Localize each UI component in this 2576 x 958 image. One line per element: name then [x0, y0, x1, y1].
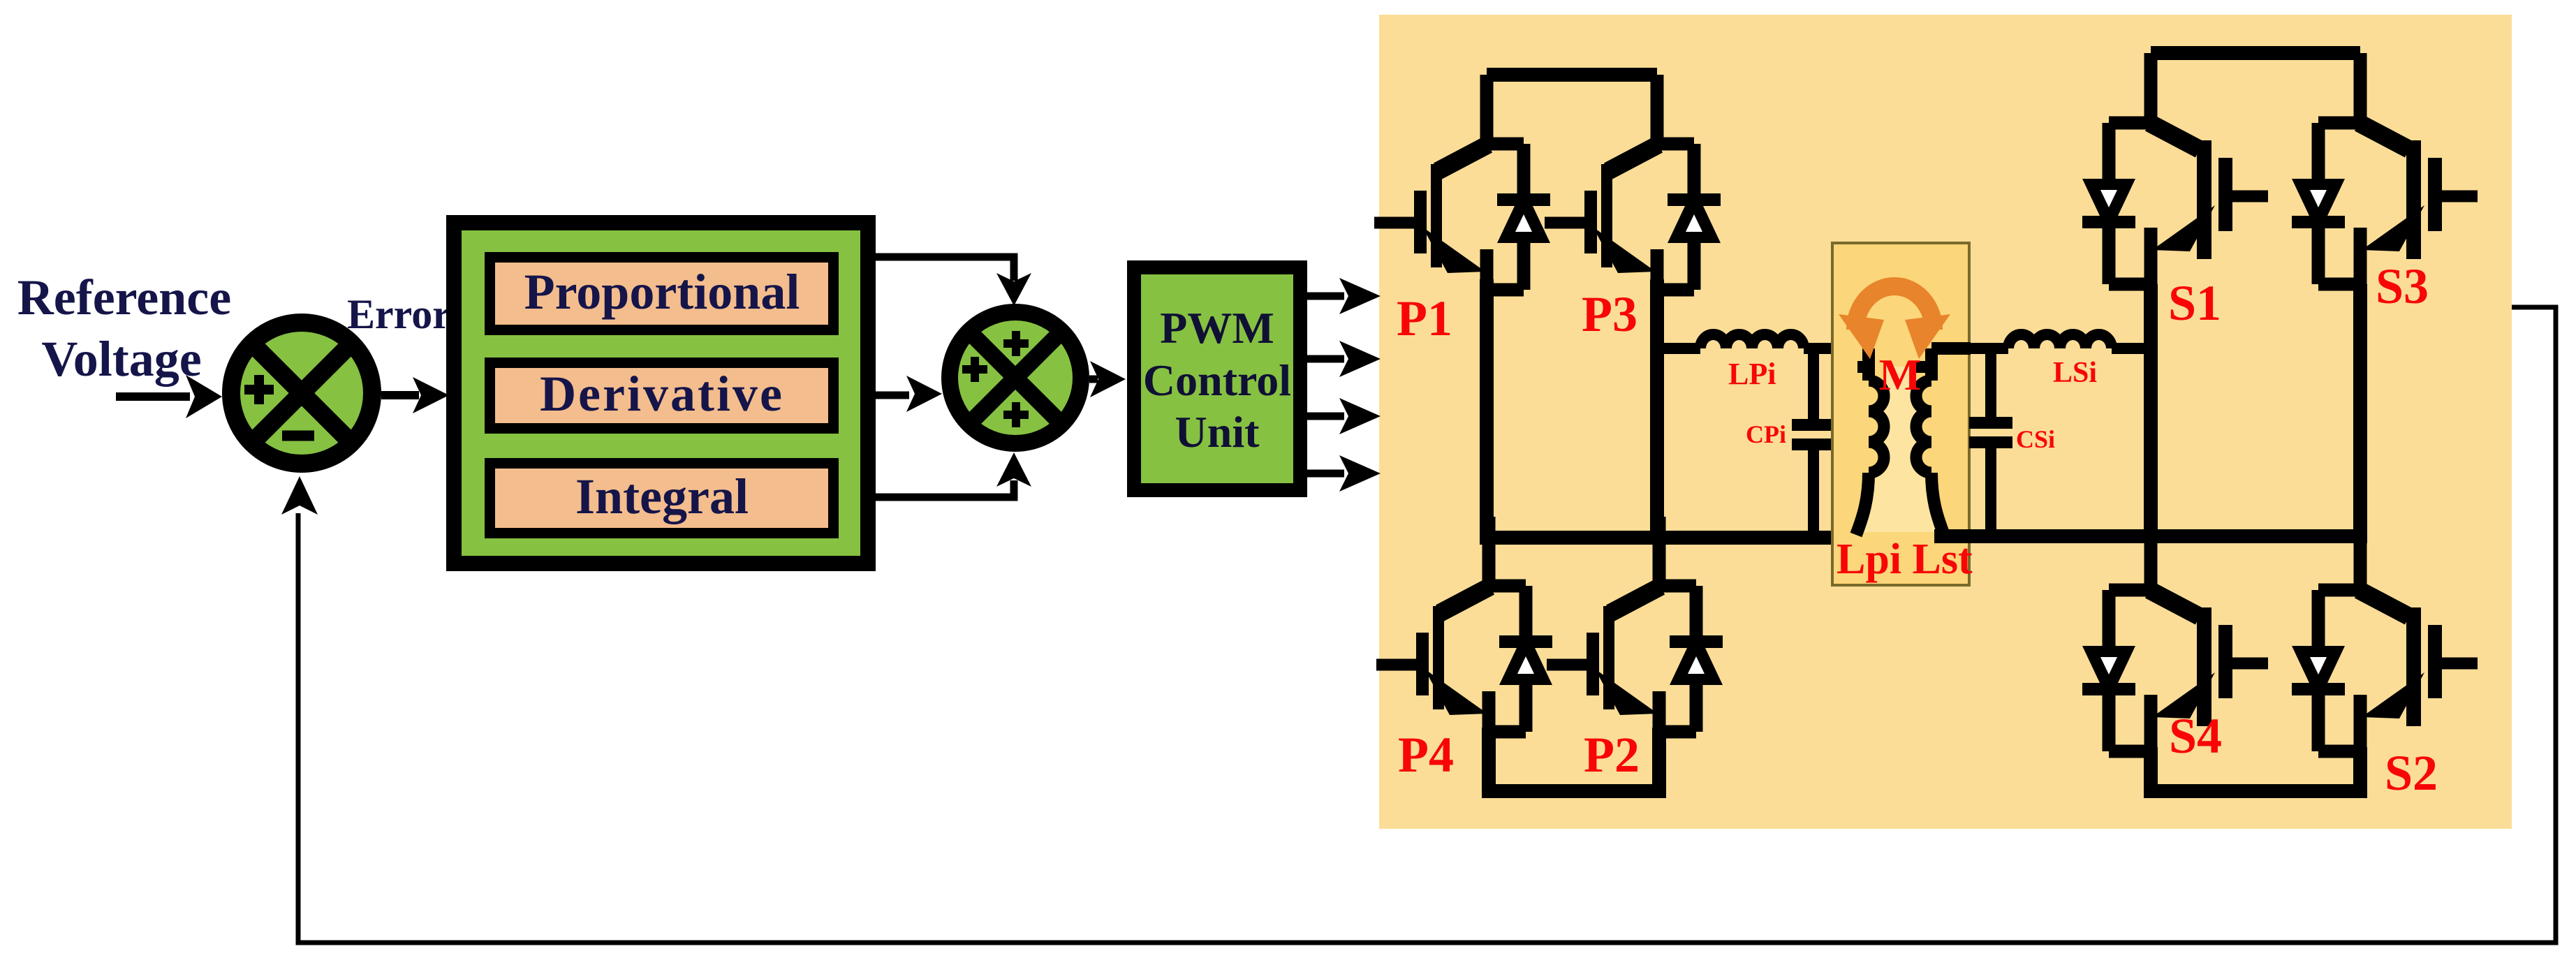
- svg-text:LPi: LPi: [1728, 357, 1776, 391]
- svg-text:Voltage: Voltage: [41, 331, 201, 387]
- svg-text:S4: S4: [2169, 708, 2222, 764]
- svg-text:P2: P2: [1584, 727, 1640, 783]
- svg-text:P4: P4: [1398, 727, 1454, 783]
- svg-text:LSi: LSi: [2053, 357, 2097, 389]
- svg-text:Unit: Unit: [1175, 407, 1260, 457]
- svg-text:S1: S1: [2168, 275, 2221, 331]
- svg-text:Control: Control: [1143, 355, 1291, 405]
- svg-text:Integral: Integral: [575, 469, 749, 524]
- svg-text:Error: Error: [347, 291, 451, 337]
- svg-text:CSi: CSi: [2016, 425, 2055, 453]
- svg-text:PWM: PWM: [1160, 303, 1274, 353]
- svg-text:M: M: [1879, 350, 1921, 399]
- svg-text:Lpi Lst: Lpi Lst: [1837, 536, 1973, 583]
- svg-text:CPi: CPi: [1746, 420, 1786, 448]
- svg-text:S2: S2: [2385, 745, 2438, 801]
- svg-text:Derivative: Derivative: [540, 366, 784, 422]
- svg-text:S3: S3: [2376, 258, 2429, 314]
- svg-text:P3: P3: [1582, 286, 1637, 342]
- svg-text:Proportional: Proportional: [524, 264, 800, 320]
- svg-text:P1: P1: [1397, 290, 1452, 346]
- svg-text:Reference: Reference: [17, 270, 231, 325]
